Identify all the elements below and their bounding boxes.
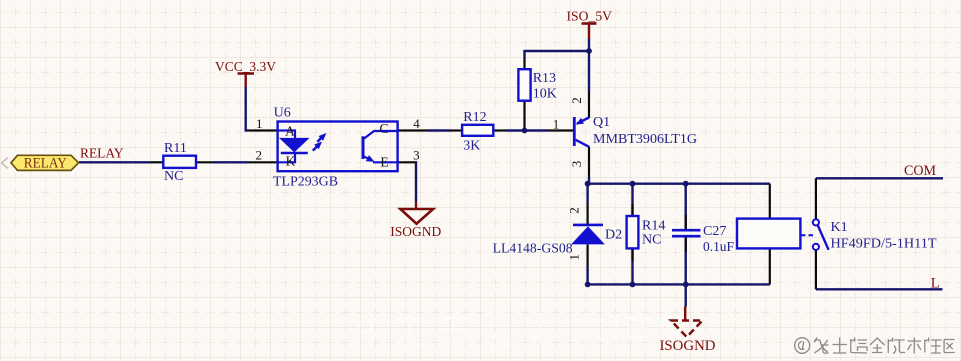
node base-R13 bbox=[522, 128, 528, 134]
node bottom rail R14 bbox=[630, 282, 636, 288]
power ISO_5V bbox=[567, 10, 613, 40]
svg-text:3K: 3K bbox=[463, 139, 480, 154]
port RELAY bbox=[11, 155, 79, 171]
svg-text:K1: K1 bbox=[831, 220, 848, 235]
pin R13.1 bbox=[523, 58, 525, 69]
svg-text:R13: R13 bbox=[533, 71, 556, 86]
svg-text:4: 4 bbox=[413, 116, 420, 131]
collector diagonal bbox=[576, 140, 589, 147]
svg-text:ISOGND: ISOGND bbox=[660, 338, 716, 354]
faint white center watermark bbox=[352, 312, 688, 344]
resistor R14 bbox=[627, 216, 666, 248]
svg-text:R14: R14 bbox=[642, 218, 665, 233]
pin K1 coil bottom bbox=[769, 248, 771, 284]
pin U6.4 bbox=[398, 129, 428, 131]
LED light arrows bbox=[313, 146, 318, 151]
pin C27.2 bbox=[685, 237, 687, 252]
node top rail D2 bbox=[585, 181, 591, 187]
svg-text:3: 3 bbox=[413, 147, 420, 162]
svg-text:L: L bbox=[931, 276, 940, 292]
svg-text:COM: COM bbox=[904, 163, 936, 179]
diode LED inside U6 bbox=[278, 131, 295, 163]
pin U6.3 bbox=[398, 161, 415, 163]
node ISO_5V rail bbox=[586, 48, 592, 54]
wire R13 bottom to base node bbox=[523, 127, 525, 131]
op-amp U6 box bbox=[255, 105, 420, 189]
svg-text:R12: R12 bbox=[463, 110, 486, 125]
svg-text:VCC_3.3V: VCC_3.3V bbox=[215, 60, 276, 75]
pin K1 contact NO bbox=[815, 250, 817, 289]
wire RELAY net: port to R11 bbox=[79, 161, 150, 163]
svg-text:1: 1 bbox=[553, 117, 560, 132]
svg-text:U6: U6 bbox=[274, 105, 291, 120]
pin R14.1 bbox=[631, 204, 633, 216]
svg-text:A: A bbox=[285, 124, 295, 139]
node top rail R14 bbox=[630, 181, 636, 187]
svg-text:R11: R11 bbox=[164, 141, 187, 156]
diode D2 bbox=[493, 207, 623, 260]
svg-text:ISO_5V: ISO_5V bbox=[567, 10, 613, 25]
wire COM bbox=[816, 177, 943, 179]
pin Q1.base bbox=[548, 129, 574, 131]
svg-text:C27: C27 bbox=[703, 224, 726, 239]
node bottom rail D2 bbox=[585, 282, 591, 288]
pin R11.1 bbox=[150, 161, 163, 163]
node top rail C27 bbox=[683, 181, 689, 187]
pin R12.2 bbox=[493, 129, 506, 131]
wire Q1 emitter vertical bbox=[588, 51, 590, 92]
wire U6 pin3 to ISOGND bbox=[415, 162, 417, 201]
wire ISO_5V rail to R13 top bbox=[525, 38, 590, 58]
wire VCC_3.3V vertical to U6 pin1 bbox=[246, 87, 248, 131]
node bottom rail C27 bbox=[683, 282, 689, 288]
resistor R13 bbox=[518, 69, 556, 101]
relay contact circles bbox=[813, 219, 819, 225]
svg-text:NC: NC bbox=[164, 169, 183, 184]
svg-text:HF49FD/5-1H11T: HF49FD/5-1H11T bbox=[831, 236, 937, 251]
wire U6 pin4 to R12 bbox=[428, 129, 451, 131]
wire L bbox=[816, 288, 943, 290]
wire Q1 collector down to top rail and through D2 to bottom rail bbox=[588, 177, 589, 285]
svg-text:MMBT3906LT1G: MMBT3906LT1G bbox=[593, 132, 697, 147]
pin K1 coil top bbox=[769, 184, 771, 219]
pin D2.1 bbox=[586, 245, 588, 268]
gray watermark bottom right bbox=[795, 338, 955, 354]
wire R12 to Q1 base with node bbox=[506, 129, 548, 131]
pin K1 contact COM bbox=[815, 178, 817, 219]
svg-text:2: 2 bbox=[569, 97, 584, 104]
pin Q1.emitter stub bbox=[588, 92, 590, 118]
pin U6.1 bbox=[248, 129, 278, 131]
svg-text:K: K bbox=[286, 154, 296, 169]
pin U6.2 bbox=[248, 161, 278, 163]
svg-text:RELAY: RELAY bbox=[80, 147, 124, 162]
svg-text:RELAY: RELAY bbox=[24, 155, 67, 171]
pin Q1.collector stub bbox=[588, 147, 590, 177]
relay K1 coil bbox=[737, 219, 937, 252]
svg-text:3: 3 bbox=[569, 161, 584, 168]
wire ISOGND lower stub bbox=[685, 284, 687, 306]
transistor Q1 bbox=[553, 97, 697, 167]
stray chevron left edge bbox=[2, 158, 9, 169]
phototransistor inside U6 bbox=[362, 136, 365, 159]
ground ISOGND lower bbox=[660, 307, 716, 355]
svg-text:10K: 10K bbox=[533, 87, 557, 102]
svg-text:D2: D2 bbox=[605, 227, 622, 242]
wire top rail bbox=[588, 182, 770, 184]
relay switch arm bbox=[818, 226, 829, 250]
wire R14 stubs bbox=[631, 184, 633, 285]
svg-text:2: 2 bbox=[566, 207, 581, 214]
svg-text:C: C bbox=[379, 121, 388, 136]
wire bottom rail bbox=[588, 283, 770, 285]
resistor R11 bbox=[163, 141, 196, 184]
pin R13.2 bbox=[523, 101, 525, 127]
svg-text:2: 2 bbox=[255, 147, 262, 162]
ground ISOGND upper bbox=[390, 202, 441, 240]
pin R14.2 bbox=[631, 248, 633, 261]
pin C27.1 bbox=[685, 215, 687, 229]
svg-text:1: 1 bbox=[256, 116, 263, 131]
svg-text:1: 1 bbox=[566, 254, 581, 261]
pin R12.1 bbox=[450, 129, 462, 131]
wire R11 to U6 pin2 bbox=[213, 161, 248, 163]
capacitor C27 bbox=[672, 224, 734, 255]
svg-text:LL4148-GS08: LL4148-GS08 bbox=[493, 242, 573, 257]
svg-text:Q1: Q1 bbox=[593, 115, 610, 130]
svg-text:E: E bbox=[380, 155, 388, 170]
relay armature dashed link bbox=[801, 234, 814, 236]
pin R11.2 bbox=[196, 161, 213, 163]
svg-text:TLP293GB: TLP293GB bbox=[273, 175, 338, 190]
svg-text:NC: NC bbox=[642, 233, 661, 248]
resistor R12 bbox=[462, 110, 493, 154]
svg-text:0.1uF: 0.1uF bbox=[703, 240, 734, 255]
power VCC_3.3V bbox=[215, 60, 276, 87]
wire C27 stubs bbox=[685, 184, 687, 285]
pin D2.2 bbox=[586, 203, 588, 224]
svg-text:ISOGND: ISOGND bbox=[390, 224, 441, 239]
emitter diagonal bbox=[577, 118, 589, 124]
